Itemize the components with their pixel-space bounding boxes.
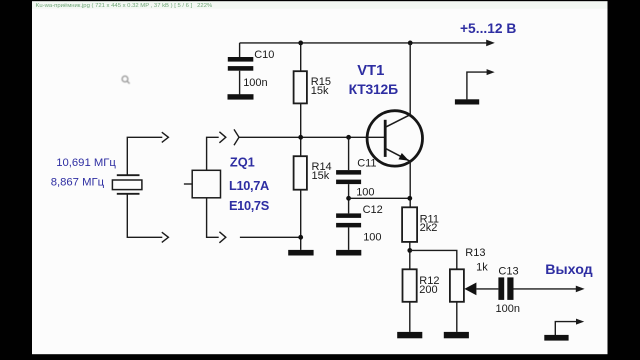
ground C12 [336,250,361,256]
status bar tint [32,1,608,9]
capacitor C11 [336,170,361,184]
svg-text:C10: C10 [254,49,274,61]
ground R12 [397,332,422,338]
svg-text:200: 200 [419,284,437,296]
filter ZQ1 bottom lead wire [207,198,219,238]
svg-text:L10,7A: L10,7A [229,178,269,193]
wire collector [409,43,411,115]
svg-text:VT1: VT1 [357,63,384,79]
resistor R13 bottom lead wire [456,302,458,332]
filter ZQ1 body [192,170,220,198]
wire output [514,288,578,290]
potentiometer R13 wiper arrow [464,283,476,296]
resistor R12 [403,269,417,302]
aux supply arrow top [467,72,488,99]
wire C11 to C12 [348,184,350,213]
svg-text:100: 100 [363,232,381,244]
crystal Z1 bottom lead wire [127,194,162,238]
arrow +V rail [486,40,495,47]
crystal Z1 top lead wire [127,137,162,175]
resistor R11 [402,207,417,242]
svg-text:C12: C12 [363,204,383,216]
svg-text:1k: 1k [476,262,488,274]
capacitor C12 bottom lead wire [348,227,350,250]
resistor R14 [294,156,307,190]
resistor R14 bottom lead wire [300,190,302,250]
resistor R15 top lead wire [300,43,302,71]
resistor R11 bottom lead wire [409,242,411,269]
svg-text:100n: 100n [496,303,520,315]
ground R14 [288,250,313,256]
node bottom row R14 [298,235,303,240]
crystal Z1 top arrow [162,132,169,142]
ground R13 [444,332,469,338]
transistor VT1 circle [367,111,422,166]
node R11 R12 R13 [407,248,412,253]
wire +V rail [240,42,488,44]
wire emitter [409,161,411,207]
filter ZQ1 left stub wire [184,183,192,185]
node C11 C12 [346,196,351,201]
resistor R15 [294,71,307,103]
svg-text:8,867 МГц: 8,867 МГц [51,177,105,189]
node chevron top [234,129,239,145]
transistor VT1 base bar [384,120,387,157]
capacitor C10 [228,57,254,71]
transistor VT1 emitter arrow [399,153,410,161]
transistor VT1 emitter diagonal [385,148,410,161]
capacitor C10 bottom lead wire [239,71,241,95]
ground aux bottom [544,335,568,341]
svg-text:ZQ1: ZQ1 [230,155,255,170]
svg-text:2k2: 2k2 [420,222,438,234]
filter ZQ1 top lead wire [207,137,219,170]
capacitor C11 top lead wire [348,137,350,170]
resistor R15 bottom lead wire [300,103,302,137]
svg-text:C11: C11 [357,158,376,170]
wire wiper to C13 [476,288,498,290]
svg-text:100: 100 [356,186,374,198]
node base row R15 R14 [298,135,303,140]
svg-text:100n: 100n [243,77,267,89]
capacitor C10 top lead wire [239,43,241,57]
svg-text:15k: 15k [311,85,329,97]
svg-text:КТ312Б: КТ312Б [349,81,398,97]
resistor R12 bottom lead wire [409,302,411,332]
ground C10 [228,94,254,99]
crystal Z1 [112,175,141,194]
svg-text:C13: C13 [498,265,518,277]
node emitter R11 [407,196,412,201]
svg-text:E10,7S: E10,7S [229,198,270,213]
node base C11 [346,135,351,140]
potentiometer R13 [450,269,464,302]
svg-text:10,691 МГц: 10,691 МГц [56,157,116,169]
resistor R14 top lead wire [300,137,302,156]
capacitor C12 [336,213,361,227]
filter ZQ1 bottom arrow [219,232,225,243]
wire bottom row [240,236,301,238]
ground aux top [455,99,479,104]
aux output arrow bottom [555,322,577,335]
node top rail collector [408,41,413,46]
svg-text:Выход: Выход [545,262,592,278]
transistor VT1 collector diagonal [385,115,410,128]
capacitor C13 [498,277,513,300]
svg-text:+5...12 В: +5...12 В [460,21,516,36]
wire C11C12 node to emitter [349,197,410,199]
magnifier cursor [122,76,130,84]
crystal Z1 bottom arrow [162,232,169,242]
svg-text:15k: 15k [312,170,330,182]
wire node to R13 [410,250,457,269]
svg-text:R13: R13 [465,247,485,259]
node top rail R15 [298,41,303,46]
filter ZQ1 top arrow [219,132,225,143]
svg-text:Ku-wa-приёмник.jpg ( 721 x 445: Ku-wa-приёмник.jpg ( 721 x 445 x 0.32 MP… [36,3,213,9]
wire base row [239,136,385,138]
arrow output [576,286,585,293]
